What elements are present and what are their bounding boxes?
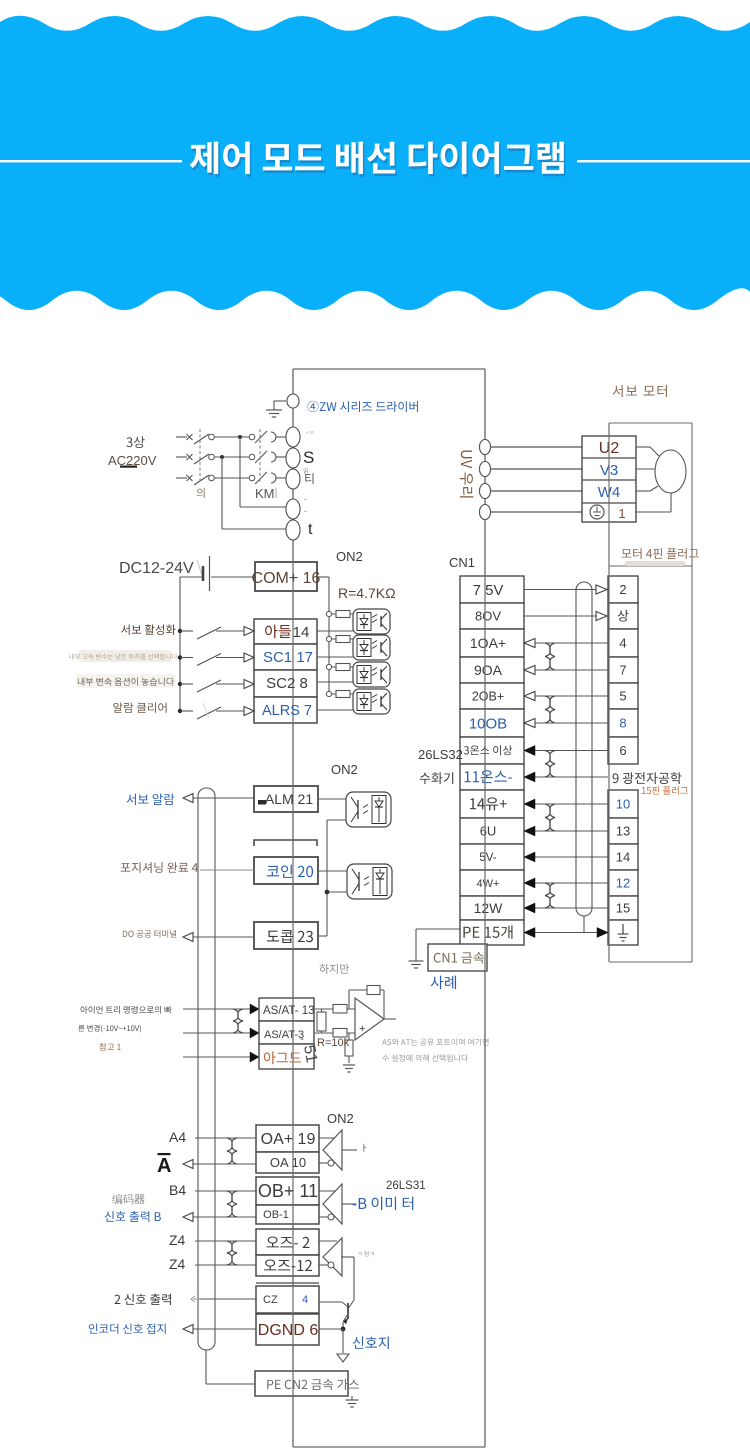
- wire opto A return: [327, 819, 346, 821]
- wire docob right: [318, 935, 327, 937]
- svg-text:6U: 6U: [480, 824, 497, 839]
- svg-text:4: 4: [302, 1294, 308, 1306]
- encoder output block: [256, 1125, 319, 1152]
- terminal AS/AT 3: [259, 1021, 314, 1044]
- contactor KM pole 2: [249, 454, 255, 460]
- svg-text:4W+: 4W+: [477, 878, 500, 890]
- twisted pair: [545, 751, 555, 764]
- wire: [215, 477, 250, 479]
- svg-text:10: 10: [616, 797, 630, 812]
- svg-text:AS/AT-3: AS/AT-3: [264, 1029, 304, 1041]
- driver enclosure top edge: [293, 368, 485, 370]
- label signal ground: [353, 1336, 389, 1349]
- wire DGND: [193, 1328, 256, 1330]
- svg-text:26LS31: 26LS31: [386, 1180, 426, 1192]
- wire CN1 row 13: [524, 907, 608, 909]
- svg-text:ON2: ON2: [327, 1111, 354, 1126]
- output A stub: [342, 1149, 357, 1151]
- arrow left open: [524, 692, 535, 701]
- ground at driver top: [274, 400, 286, 402]
- svg-text:1OA+: 1OA+: [470, 635, 506, 651]
- driver right bus overdraw: [484, 369, 486, 1447]
- terminal letter ti: [305, 473, 313, 484]
- op-amp output: [384, 1018, 396, 1020]
- svg-text:4: 4: [619, 636, 626, 651]
- wire coin to opto: [318, 870, 347, 872]
- svg-text:t: t: [308, 521, 313, 538]
- input resistor row 1: [326, 611, 331, 616]
- wire V to motor: [636, 468, 655, 470]
- line driver 26LS31 A: [319, 1137, 337, 1139]
- input arrow: [244, 707, 254, 716]
- svg-text:ON2: ON2: [336, 549, 363, 564]
- svg-text:SC1 17: SC1 17: [263, 649, 313, 666]
- svg-text:S: S: [303, 448, 314, 467]
- header wavy blue banner: [0, 16, 750, 310]
- wire battery to common rail: [180, 576, 202, 578]
- svg-text:2OB+: 2OB+: [472, 689, 504, 703]
- svg-text:DGND 6: DGND 6: [258, 1322, 319, 1339]
- wire CN1 row 1: [524, 589, 608, 591]
- svg-text:5: 5: [619, 689, 626, 704]
- twisted pair: [545, 643, 555, 657]
- svg-text:OA 10: OA 10: [270, 1155, 306, 1170]
- output B stub: [342, 1203, 356, 1205]
- wire CN1 row 9: [524, 803, 608, 805]
- svg-text:R=10k: R=10k: [317, 1037, 350, 1049]
- transistor Q1: [347, 1303, 349, 1319]
- arrow left filled: [524, 799, 535, 809]
- header divider line right: [577, 160, 750, 162]
- svg-text:KM: KM: [255, 486, 275, 501]
- svg-text:1: 1: [618, 506, 625, 521]
- wire B-: [193, 1216, 256, 1218]
- svg-text:OB+ 11: OB+ 11: [258, 1181, 318, 1201]
- label servo enable: [121, 624, 176, 635]
- motor terminal block: [582, 436, 636, 522]
- line driver 26LS31 B: [319, 1190, 337, 1192]
- header title shadow: [191, 144, 565, 177]
- plug ground pin symbol: [622, 924, 624, 934]
- shield stem: [583, 916, 585, 932]
- input switch row 2: [178, 655, 182, 659]
- svg-text:10OB: 10OB: [469, 715, 507, 732]
- wire CN1 row 6: [524, 722, 608, 724]
- terminal AGND: [259, 1044, 314, 1069]
- wire CN1 row 4: [524, 669, 608, 671]
- arrow left open: [524, 719, 535, 728]
- wire CN1 row 14: [524, 932, 608, 934]
- wire PE to chassis: [416, 928, 461, 930]
- PE arrows: [524, 928, 535, 938]
- svg-text:8: 8: [619, 716, 626, 731]
- wire row 4 to opto: [317, 709, 353, 711]
- terminal ALM 21: [254, 786, 318, 812]
- wire Z+: [195, 1240, 256, 1242]
- plus input ground leg: [348, 1033, 350, 1063]
- svg-text:R=4.7KΩ: R=4.7KΩ: [338, 585, 396, 601]
- wire: [276, 436, 286, 438]
- svg-text:2: 2: [619, 582, 626, 597]
- label breaker: [197, 488, 205, 498]
- terminal coin 20: [254, 857, 318, 884]
- svg-text:ALM 21: ALM 21: [265, 791, 313, 807]
- shield capsule (encoder cable): [576, 582, 592, 916]
- label 2 signal output: [114, 1294, 170, 1305]
- circuit breaker pole 3: [176, 477, 187, 479]
- svg-text:Z4: Z4: [169, 1232, 186, 1248]
- arrow left filled: [524, 826, 535, 836]
- svg-text:Z4: Z4: [169, 1256, 186, 1272]
- driver input terminals redraw: [287, 394, 299, 408]
- svg-text:B4: B4: [169, 1182, 186, 1198]
- label B emitter: [353, 1197, 414, 1211]
- wire shield to PE CN2: [205, 1350, 207, 1384]
- wire COM+ to opto rail: [317, 576, 329, 578]
- wire CZ: [199, 1298, 256, 1300]
- svg-text:COM+ 16: COM+ 16: [252, 570, 321, 587]
- wire: [276, 456, 286, 458]
- driver UVW terminals: [480, 440, 491, 455]
- label 3-phase: [126, 436, 144, 448]
- driver enclosure right edge: [484, 369, 486, 1447]
- label photoelectric 15pin: [613, 772, 682, 784]
- op-amp U1: [355, 998, 384, 1040]
- svg-text:-: -: [304, 494, 307, 504]
- terminal PE CN2 shell: [255, 1371, 348, 1396]
- plug pin 상: [618, 610, 629, 622]
- svg-text:9OA: 9OA: [474, 662, 503, 678]
- motor feedback plug column: [608, 576, 638, 603]
- svg-text:AS/AT- 13: AS/AT- 13: [263, 1005, 315, 1017]
- label DO common terminal: [123, 930, 176, 938]
- label motor 4pin plug: [622, 548, 699, 559]
- twisted pair: [545, 696, 555, 710]
- text coin20: [267, 865, 313, 878]
- optocoupler input 1: [353, 609, 390, 634]
- twisted pair analog: [233, 1009, 243, 1021]
- arrow left filled: [524, 903, 535, 913]
- chassis ground: [409, 960, 424, 962]
- label signal output B: [105, 1211, 161, 1222]
- optocoupler out B: [347, 864, 392, 899]
- input resistor row 3: [326, 664, 331, 669]
- input switch row 3: [178, 682, 182, 686]
- arrow right open: [596, 612, 607, 621]
- arrow right open: [596, 585, 607, 594]
- optocoupler input 2: [353, 635, 390, 660]
- wire CN1 row 11: [524, 856, 608, 858]
- label alarm clear: [113, 702, 166, 712]
- svg-text:A: A: [157, 1155, 171, 1177]
- wire battery to COM+: [211, 576, 255, 578]
- label however: [319, 964, 348, 974]
- analog arrows: [250, 1004, 259, 1014]
- label encoder chinese: [112, 1194, 145, 1205]
- wire A+: [195, 1137, 256, 1139]
- svg-text:6: 6: [619, 743, 626, 758]
- optocoupler input 4: [353, 689, 390, 714]
- wire ALM to opto: [318, 798, 346, 800]
- driver UVW terminals redraw: [480, 440, 491, 455]
- wire ground to motor: [636, 511, 671, 513]
- terminal docob 23: [254, 922, 318, 949]
- text docob23: [267, 930, 313, 943]
- breaker linkage dashed: [199, 429, 201, 484]
- CN1 pin label 14유+: [470, 797, 507, 810]
- CN1 terminal column: [460, 576, 524, 603]
- driver enclosure left edge (main bus): [292, 369, 294, 1447]
- terminal COM+ 16: [255, 562, 317, 591]
- battery DC12-24V: [202, 566, 205, 581]
- arrow left filled: [524, 772, 535, 782]
- driver enclosure bottom edge: [293, 1446, 485, 1448]
- driver output terminals UVW: [490, 446, 582, 448]
- PE CN2 ground: [351, 1396, 353, 1400]
- signal ground arrow: [337, 1354, 349, 1362]
- input resistor row 4: [326, 691, 331, 696]
- svg-text:+: +: [359, 1023, 365, 1035]
- wire docob left: [193, 936, 254, 938]
- svg-text:DC12-24V: DC12-24V: [119, 560, 194, 577]
- wire A-: [193, 1163, 256, 1165]
- circuit breaker pole 2: [176, 456, 187, 458]
- label servo alarm: [127, 794, 175, 805]
- label servo motor: [613, 385, 667, 397]
- wire: [276, 477, 286, 479]
- svg-text:SC2 8: SC2 8: [266, 675, 308, 692]
- wire CN1 row 8: [524, 776, 608, 778]
- contactor linkage dashed: [259, 429, 261, 484]
- input terminal block: [254, 619, 317, 644]
- label encoder signal ground: [89, 1323, 166, 1333]
- svg-text:OB-1: OB-1: [263, 1209, 289, 1221]
- header title: [190, 142, 564, 175]
- svg-text:CZ: CZ: [263, 1294, 278, 1306]
- input switch row 4: [178, 709, 182, 713]
- label UV vertical: [460, 450, 474, 497]
- wire CN1 row 2: [524, 615, 608, 617]
- header divider line left: [0, 160, 182, 162]
- label analog cmd line1: [81, 1006, 172, 1014]
- svg-text:14: 14: [616, 850, 630, 865]
- arrow left filled: [524, 878, 535, 888]
- label ZW series driver: [307, 401, 418, 412]
- motor circle: [655, 450, 686, 493]
- wire row 2 to opto: [317, 656, 353, 658]
- svg-text:26LS32: 26LS32: [418, 747, 463, 762]
- wire CN1 row 5: [524, 695, 608, 697]
- svg-text:ALRS 7: ALRS 7: [262, 703, 312, 719]
- terminal AS/AT- 13: [259, 998, 314, 1021]
- shield capsule left: [198, 788, 215, 1350]
- arrow left open: [524, 639, 535, 648]
- wire ALM left: [193, 797, 254, 799]
- wire CN1 row 12: [524, 882, 608, 884]
- svg-text:14: 14: [293, 624, 310, 641]
- faint blur background: [78, 650, 172, 662]
- arrow left filled: [524, 746, 535, 756]
- twisted pair: [545, 804, 555, 818]
- CN1 pin label 3온스 이상: [464, 745, 512, 755]
- CN1 pin label 11온스-: [465, 770, 512, 783]
- arrow left open: [524, 666, 535, 675]
- wire row 1 to opto: [317, 630, 353, 632]
- svg-text:7 5V: 7 5V: [473, 582, 504, 599]
- wire CN1 row 10: [524, 830, 608, 832]
- svg-text:12W: 12W: [474, 900, 504, 916]
- wire B+: [195, 1190, 256, 1192]
- junction DGND: [341, 1327, 346, 1332]
- text ALM21: [258, 800, 266, 805]
- svg-text:12: 12: [616, 876, 630, 891]
- contactor KM pole 3: [249, 475, 255, 481]
- feedback resistor R=10k: [383, 990, 385, 1019]
- arrow left filled: [524, 852, 535, 862]
- analog wires: [183, 1008, 251, 1010]
- input resistor row 2: [326, 636, 331, 641]
- label case: [431, 976, 456, 990]
- svg-text:8OV: 8OV: [475, 609, 501, 624]
- svg-text:-: -: [304, 506, 307, 516]
- single phase tap L1: [238, 435, 242, 439]
- input switch row 1: [178, 629, 182, 633]
- wire row 3 to opto: [317, 681, 353, 683]
- wire U to motor: [636, 446, 650, 448]
- svg-text:ON2: ON2: [331, 762, 358, 777]
- wire coin left: [200, 869, 254, 871]
- optocoupler input 3: [353, 662, 390, 687]
- svg-text:15: 15: [616, 901, 630, 916]
- svg-text:CN1: CN1: [449, 555, 475, 570]
- wire Z-: [195, 1264, 256, 1266]
- text input rows: [265, 625, 291, 639]
- bracket above coin: [254, 840, 317, 846]
- label analog cmd line2: [78, 1025, 141, 1033]
- input arrow: [244, 627, 254, 636]
- wire W to motor: [636, 490, 650, 492]
- wire CN1 row 3: [524, 642, 608, 644]
- twisted pairs encoder: [227, 1138, 237, 1151]
- svg-text:OA+ 19: OA+ 19: [261, 1131, 316, 1148]
- wire CN1 row 7: [524, 750, 608, 752]
- optocoupler out A: [346, 792, 391, 827]
- output Z to transistor: [341, 1256, 354, 1258]
- label note1: [99, 1043, 120, 1051]
- label internal speed option: [78, 678, 174, 686]
- faint note line1: [69, 654, 177, 660]
- input arrow: [244, 653, 254, 662]
- line driver 26LS31 C: [319, 1240, 337, 1242]
- label sohwagi: [420, 772, 454, 784]
- svg-text:51: 51: [300, 1044, 320, 1065]
- wire: [215, 456, 250, 458]
- note AS AT shared: [382, 1038, 489, 1045]
- wire: [215, 436, 250, 438]
- driver left bus overdraw: [292, 369, 294, 1447]
- wire opto B return: [327, 891, 347, 893]
- contactor KM pole 1: [249, 434, 255, 440]
- circuit breaker pole 1: [176, 436, 187, 438]
- CN1 pin label PE 15개: [463, 925, 512, 939]
- svg-text:7: 7: [619, 663, 626, 678]
- svg-text:5V-: 5V-: [479, 852, 496, 864]
- driver input terminals: [287, 394, 299, 408]
- servo motor outer box: [609, 422, 692, 424]
- single phase tap L2: [220, 455, 224, 459]
- svg-text:A4: A4: [169, 1129, 186, 1145]
- label positioning done: [121, 862, 198, 873]
- input arrow: [244, 680, 254, 689]
- servo outer box left edge overdraw: [608, 423, 610, 962]
- CN1 shell box: [428, 944, 487, 971]
- motor terminal ground: [590, 505, 604, 519]
- twisted pair: [545, 883, 555, 896]
- svg-text:13: 13: [616, 824, 630, 839]
- input resistor network: [314, 1008, 355, 1010]
